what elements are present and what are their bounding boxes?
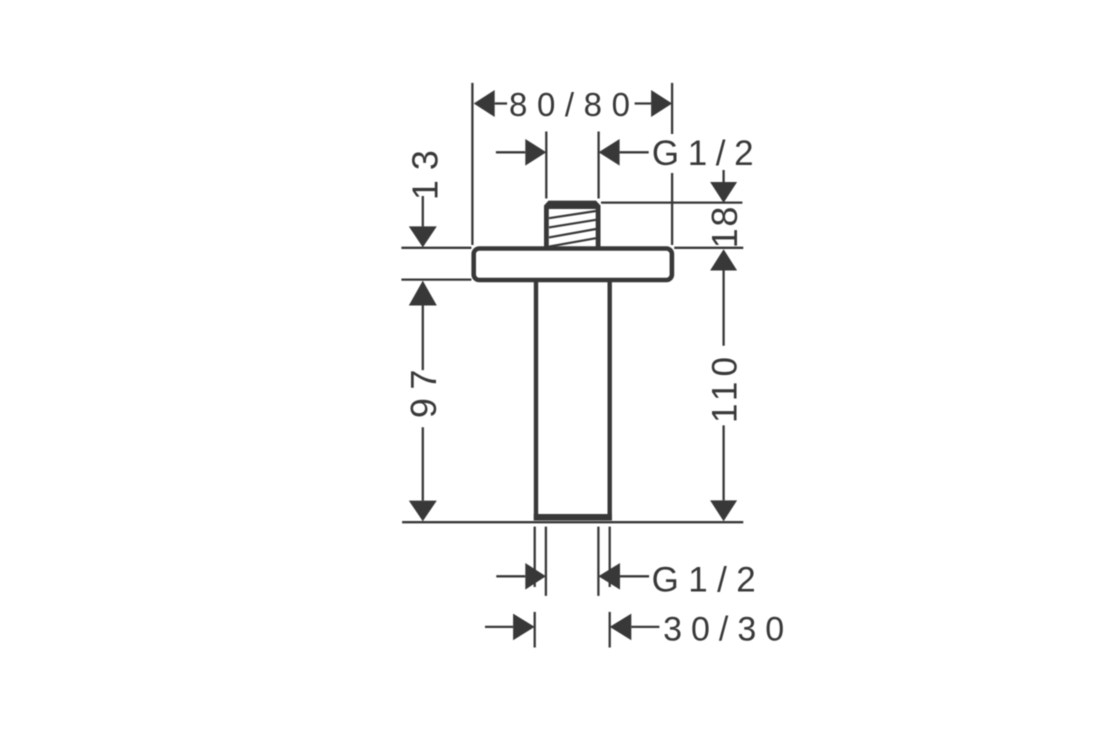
dimension 30/30 left arrowhead (513, 614, 535, 641)
dimension 13 down arrowhead (409, 226, 437, 247)
dimension 18 tail (722, 170, 724, 183)
extension line left (G1/2 bottom) (545, 527, 547, 596)
dimension 97 upper line (422, 306, 424, 371)
dimension 80/80 right arrowhead (651, 90, 672, 117)
dimension 13 upper line (422, 196, 424, 226)
pipe bottom datum line (402, 521, 743, 523)
svg-text:110: 110 (706, 352, 745, 423)
dimension 30/30 right tail (631, 626, 659, 628)
extension line left (30/30) upper segment (534, 527, 536, 587)
extension line right (G1/2 top) (597, 132, 599, 199)
extension line left (G1/2 top) (545, 132, 547, 199)
dimension G1/2 bottom right tail (620, 575, 649, 577)
dimension G1/2 top left tail (496, 151, 525, 153)
ceiling line right segment (674, 247, 743, 249)
extension line right (30/30) upper segment (609, 527, 611, 587)
extension line right (80/80) upper part (671, 83, 673, 134)
dimension 80/80 left tail (495, 102, 507, 104)
extension line left (80/80) (471, 83, 473, 245)
extension line right (G1/2 bottom) (597, 527, 599, 596)
extension line right (80/80) lower part (671, 173, 673, 245)
extension line left (30/30) lower segment (534, 612, 536, 648)
dimension 110 upper line (722, 271, 724, 346)
svg-text:G1/2: G1/2 (652, 134, 762, 173)
flange bottom reference line (401, 278, 471, 280)
dimension G1/2 top left arrowhead (525, 139, 546, 166)
dimension 18 down arrowhead (710, 182, 737, 203)
svg-text:80/80: 80/80 (509, 86, 640, 123)
dimension 13/97 up arrowhead (409, 281, 437, 306)
dimension 97 lower line (422, 427, 424, 500)
dimension G1/2 bottom left tail (496, 575, 525, 577)
svg-text:18: 18 (704, 205, 745, 248)
threaded nipple left wall (544, 209, 549, 248)
flange (ceiling escutcheon plate) (474, 249, 672, 281)
svg-text:G1/2: G1/2 (652, 560, 765, 599)
svg-text:13: 13 (404, 140, 445, 200)
svg-text:97: 97 (403, 361, 444, 418)
dimension 97 down arrowhead (409, 501, 437, 522)
dimension 30/30 right arrowhead (610, 614, 632, 641)
pipe left wall (534, 280, 538, 521)
svg-text:30/30: 30/30 (663, 611, 793, 649)
dimension G1/2 bottom left arrowhead (525, 563, 546, 590)
threaded nipple top bar (544, 201, 601, 209)
pipe right wall (608, 280, 612, 521)
extension line right (30/30) lower segment (609, 612, 611, 648)
threaded nipple right wall (596, 209, 601, 248)
dimension 30/30 left tail (485, 626, 513, 628)
ceiling line left segment (401, 247, 471, 249)
dimension 110 down arrowhead (710, 500, 737, 521)
dimension 80/80 right tail (635, 102, 652, 104)
thread hatch line 2 (549, 220, 596, 228)
dimension 80/80 left arrowhead (474, 90, 495, 117)
thread hatch line 1 (549, 211, 596, 218)
thread hatch line 4 (549, 238, 596, 246)
dimension 110 lower line (722, 425, 724, 500)
pipe bottom edge (534, 514, 612, 521)
dimension 110 up arrowhead (710, 249, 737, 270)
thread hatch line 3 (549, 229, 596, 237)
dimension G1/2 top right arrowhead (599, 139, 620, 166)
dimension G1/2 bottom right arrowhead (598, 563, 620, 590)
dimension G1/2 top right tail (620, 151, 649, 153)
nipple top reference line (601, 201, 742, 203)
